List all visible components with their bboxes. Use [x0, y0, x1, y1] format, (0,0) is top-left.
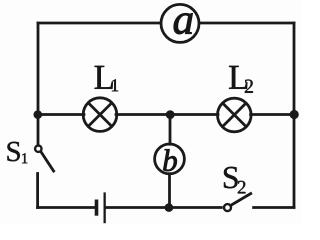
battery negative plate short thick [95, 200, 99, 216]
label L2 [229, 66, 247, 89]
wire left rail lower [36, 174, 39, 208]
wire top-left horizontal [38, 22, 161, 25]
wire left rail upper [37, 23, 40, 145]
switch S2 blade [231, 194, 251, 206]
ammeter a circle U-a [161, 4, 199, 42]
battery positive plate long thin [104, 192, 106, 223]
wire branch b upper [169, 115, 172, 145]
label meter letter a [174, 13, 193, 34]
label S1 [7, 142, 19, 161]
wire bottom center segment [106, 206, 222, 209]
lamp L1 [83, 98, 117, 132]
node junction dot left middle [34, 110, 43, 119]
node junction dot bottom [165, 203, 174, 212]
switch S2 contact circle [224, 204, 231, 211]
wire middle left segment [38, 113, 84, 116]
wire bottom left segment [38, 206, 95, 209]
switch S1 blade [41, 152, 53, 171]
wire middle center segment [116, 113, 218, 116]
wire bottom right segment [254, 206, 294, 209]
lamp L2 [218, 98, 252, 132]
wire right rail [293, 23, 296, 207]
switch S1 contact circle [35, 146, 41, 152]
node junction dot right middle [290, 110, 299, 119]
wire top-right horizontal [200, 22, 295, 25]
label meter letter b [163, 149, 176, 171]
label S2 [224, 167, 238, 189]
label L1 [95, 66, 113, 89]
node junction dot center middle [166, 110, 175, 119]
wire middle right segment [251, 113, 294, 116]
voltmeter b circle U-b [155, 144, 185, 174]
wire branch b lower [168, 174, 171, 208]
